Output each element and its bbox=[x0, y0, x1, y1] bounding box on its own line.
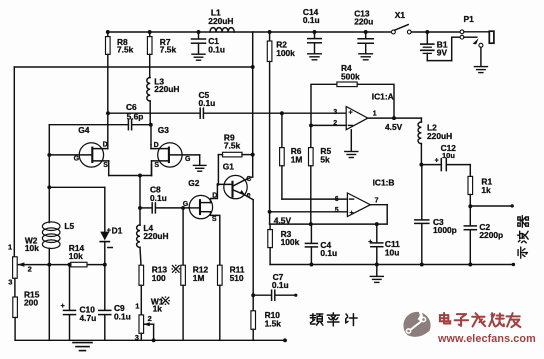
svg-text:0.1u: 0.1u bbox=[114, 312, 131, 322]
svg-text:+: + bbox=[348, 108, 353, 117]
svg-text:220uH: 220uH bbox=[208, 16, 233, 26]
svg-text:D: D bbox=[103, 141, 108, 148]
svg-text:10u: 10u bbox=[442, 151, 455, 160]
svg-text:3: 3 bbox=[333, 109, 337, 116]
svg-text:0.1u: 0.1u bbox=[150, 193, 167, 203]
svg-text:100k: 100k bbox=[276, 48, 295, 58]
svg-text:C: C bbox=[246, 176, 251, 183]
svg-text:7: 7 bbox=[375, 198, 379, 205]
svg-text:0.1u: 0.1u bbox=[303, 15, 320, 25]
svg-text:S: S bbox=[103, 162, 108, 169]
svg-text:1.5k: 1.5k bbox=[265, 319, 282, 329]
svg-text:P1: P1 bbox=[464, 14, 475, 24]
svg-text:5k: 5k bbox=[320, 154, 330, 164]
svg-text:1k: 1k bbox=[481, 185, 491, 195]
svg-text:D: D bbox=[154, 142, 159, 149]
svg-text:+: + bbox=[349, 208, 354, 217]
svg-text:500k: 500k bbox=[341, 71, 360, 81]
svg-text:7.5k: 7.5k bbox=[224, 141, 241, 151]
svg-text:0.1u: 0.1u bbox=[208, 44, 225, 54]
svg-text:D: D bbox=[212, 193, 217, 200]
svg-text:2: 2 bbox=[148, 314, 152, 323]
svg-text:IC1:A: IC1:A bbox=[372, 92, 394, 102]
svg-text:G: G bbox=[74, 155, 80, 162]
svg-text:0.1u: 0.1u bbox=[199, 98, 216, 108]
svg-text:1M: 1M bbox=[291, 154, 303, 164]
svg-text:G3: G3 bbox=[158, 125, 170, 135]
svg-text:2200p: 2200p bbox=[479, 230, 503, 240]
svg-text:IC1:B: IC1:B bbox=[373, 177, 395, 187]
svg-text:10u: 10u bbox=[385, 248, 399, 258]
svg-text:1M: 1M bbox=[193, 273, 205, 283]
svg-text:S: S bbox=[154, 162, 159, 169]
svg-text:1: 1 bbox=[8, 242, 12, 251]
svg-text:4.7u: 4.7u bbox=[80, 313, 97, 323]
svg-text:G2: G2 bbox=[188, 178, 200, 188]
svg-text:510: 510 bbox=[230, 273, 244, 283]
svg-text:220uH: 220uH bbox=[143, 231, 168, 241]
svg-text:100k: 100k bbox=[281, 237, 300, 247]
svg-text:5: 5 bbox=[335, 207, 339, 214]
svg-text:S: S bbox=[212, 216, 217, 223]
svg-text:220uH: 220uH bbox=[154, 84, 179, 94]
svg-text:1k: 1k bbox=[153, 304, 163, 314]
svg-text:5.6p: 5.6p bbox=[127, 111, 144, 121]
svg-text:4.5V: 4.5V bbox=[385, 122, 403, 132]
svg-text:7.5k: 7.5k bbox=[160, 45, 177, 55]
svg-text:10k: 10k bbox=[25, 243, 39, 253]
svg-text:0.1u: 0.1u bbox=[320, 248, 337, 258]
svg-text:+: + bbox=[435, 158, 439, 165]
svg-text:10k: 10k bbox=[69, 251, 83, 261]
svg-text:G4: G4 bbox=[78, 125, 90, 135]
svg-text:X1: X1 bbox=[395, 10, 406, 20]
svg-text:G: G bbox=[185, 156, 191, 163]
svg-text:G1: G1 bbox=[223, 161, 235, 171]
svg-text:1: 1 bbox=[135, 302, 139, 311]
svg-text:D1: D1 bbox=[112, 226, 123, 236]
svg-text:1: 1 bbox=[373, 110, 377, 117]
svg-text:www.elecfans.com: www.elecfans.com bbox=[437, 333, 536, 345]
svg-text:200: 200 bbox=[24, 297, 38, 307]
svg-text:2: 2 bbox=[28, 265, 32, 274]
svg-text:+: + bbox=[368, 239, 372, 246]
svg-text:0.1u: 0.1u bbox=[272, 280, 289, 290]
svg-text:L5: L5 bbox=[64, 221, 74, 231]
svg-text:220u: 220u bbox=[354, 17, 373, 27]
svg-text:220uH: 220uH bbox=[427, 131, 452, 141]
svg-text:7.5k: 7.5k bbox=[117, 45, 134, 55]
svg-text:+: + bbox=[61, 303, 65, 310]
svg-text:100: 100 bbox=[152, 273, 166, 283]
svg-text:3: 3 bbox=[8, 278, 12, 287]
svg-text:9V: 9V bbox=[437, 48, 448, 58]
svg-text:e: e bbox=[247, 192, 251, 199]
svg-text:1000p: 1000p bbox=[433, 225, 457, 235]
